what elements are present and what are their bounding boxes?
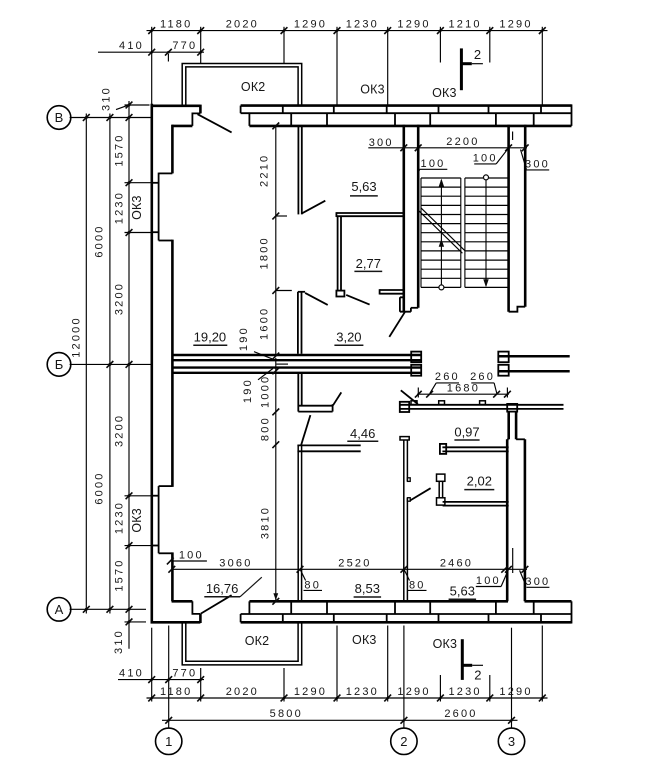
door swing closet 2.77 [346,295,369,305]
bottom extension lines from building down [151,628,153,702]
stair flight edge mid-right [464,178,466,287]
svg-text:8,53: 8,53 [355,581,380,596]
dim column 12000 [85,114,87,614]
stair treads right flight [465,177,509,179]
dim column detail left [128,101,130,649]
axis line В [70,117,151,119]
svg-text:1570: 1570 [113,558,125,591]
svg-text:1180: 1180 [160,686,192,698]
partition corridor 3.20 left [297,292,299,354]
jamb block left end of 0.97/2.02 wall [440,444,446,454]
svg-text:260: 260 [470,371,495,383]
door nub upper partition 8.53/5.63 [407,478,410,482]
svg-text:300: 300 [369,137,394,149]
axis circle В [47,106,71,130]
svg-text:1230: 1230 [346,686,379,698]
partition cap corridor 3.20 [298,291,305,293]
bottom wall jamb verticals [248,601,250,614]
stair up-arrow line left flight [440,180,442,287]
svg-text:1: 1 [165,734,172,749]
svg-text:310: 310 [101,86,113,111]
partition room 8.53 / 5.63 [403,440,405,602]
svg-text:5,63: 5,63 [351,179,376,194]
bottom balcony door jamb step [192,601,200,614]
svg-text:2: 2 [400,734,407,749]
svg-text:ОК3: ОК3 [352,633,377,647]
svg-text:2: 2 [474,668,481,683]
door jamb block corridor bottom wall left end [400,402,409,412]
svg-text:100: 100 [179,550,204,562]
stair arrowhead left flight top [439,179,444,187]
arrowhead at bottom of 3810 column [273,593,278,600]
ticks 12000 column [83,114,90,121]
stair arrowhead right flight bottom [483,279,488,287]
stair flight edge left [420,178,422,287]
wall 800 left segment room 4.46 bottom [297,444,360,446]
svg-text:1290: 1290 [499,686,532,698]
corridor bottom wall lower apartment [400,404,564,406]
closet 2.02 jamb block bottom [437,498,445,505]
axis line Б [70,363,151,365]
left wall niche bottom top-window [159,240,173,242]
stair arrowhead left flight mid [439,239,444,247]
door jamb block corridor lower right [498,365,508,376]
svg-text:2210: 2210 [258,154,270,187]
closet 2.02 left partition [438,481,440,498]
partition room 16.76 / 8.53 [297,445,299,601]
stair treads left flight [421,177,461,179]
left wall top window band bottom edge [152,231,159,233]
svg-text:80: 80 [304,579,321,591]
right wall below stairs narrow part [507,412,510,440]
bottom wall mid sill line [241,613,572,615]
door swing room 19.20 [305,293,328,305]
axis line 1 [168,626,170,729]
top extension lines down from dim rows [151,27,153,105]
extension line window top edge y182.7 [125,182,151,184]
svg-text:В: В [55,110,64,125]
inner dim stub at closet top [276,215,287,217]
door swing room 5.63 [302,201,326,214]
svg-text:770: 770 [172,667,197,679]
left wall niche bottom bottom-window [159,552,173,554]
axis line 2 [403,626,405,729]
axis circle 2 [391,728,417,754]
stair left wall bottom step [411,307,418,309]
hall wall horizontal y408 [298,405,332,407]
stair left wall outer face [402,125,405,312]
closet 2.02 jamb block top [437,474,445,481]
loggia top inner wall [186,67,298,105]
svg-text:310: 310 [113,629,125,654]
stair dim ticks [400,144,407,151]
bottom interior dim line 3060 2520 2460 [171,568,527,570]
stair break line diagonal [418,210,462,253]
right wall below stairs step [516,438,525,440]
svg-text:3,20: 3,20 [336,329,361,344]
partition 8.53/5.63 top cap block [400,437,409,440]
door jamb block corridor upper left end [411,352,421,363]
svg-text:3810: 3810 [260,506,272,539]
extension stub x168.4 below row2 [167,54,169,62]
extension stub right wall bottom [512,548,514,573]
svg-text:16,76: 16,76 [206,581,239,596]
svg-text:ОК3: ОК3 [360,83,385,97]
svg-text:ОК2: ОК2 [241,80,266,94]
dim column 6000 [109,114,111,614]
door jamb block corridor upper right [498,352,508,363]
dim row1 bottom line [147,697,548,699]
right wall step horizontal left [507,438,509,440]
bottom wall band verticals [240,614,242,622]
svg-text:300: 300 [525,158,550,170]
closet 2.02 bottom wall [443,501,509,503]
svg-text:1230: 1230 [113,191,125,224]
top wall band verticals windows and pier caps [240,106,242,114]
top wall outer line left pier [151,105,201,108]
bottom wall outer line left pier [151,621,201,624]
bottom wall right end closure [571,601,573,623]
central wall lower partition 190 left segment [172,366,422,368]
svg-text:800: 800 [260,416,272,441]
corridor wall right segment lower line [498,370,569,373]
svg-text:1680: 1680 [447,382,480,394]
svg-text:А: А [55,602,64,617]
door jamb stub 1 on corridor bottom wall [411,401,417,405]
svg-text:2020: 2020 [226,18,259,30]
left wall bottom window band top edge [152,495,159,497]
left wall inner face upper pier [171,125,174,174]
svg-text:2020: 2020 [226,686,259,698]
top balcony door jamb step [192,113,200,126]
left wall top window band top edge [152,182,159,184]
bottom wall inner face line left part [249,600,508,603]
svg-text:5,63: 5,63 [450,584,475,599]
loggia bottom outer wall [182,623,302,665]
svg-text:100: 100 [476,575,501,587]
svg-text:ОК3: ОК3 [433,637,458,651]
svg-text:6000: 6000 [94,224,106,257]
dim 1680 extension stubs [417,388,419,398]
bottom wall inner face line right part [525,600,572,603]
svg-text:3: 3 [508,734,515,749]
door swing bottom balcony door [201,595,232,613]
svg-text:1290: 1290 [294,686,327,698]
stair flight edge mid-left [460,178,462,287]
svg-text:1600: 1600 [259,307,271,340]
closet 2.77 top wall [336,212,404,214]
partition room 19.20 / 5.63 [297,126,299,214]
dim row2 top line 410 770 [98,51,204,53]
dim row1 top line [147,30,548,32]
top wall inner face left piece [172,125,193,128]
section mark 2 bottom heavy line [461,639,464,680]
svg-text:6000: 6000 [94,471,106,504]
svg-text:1230: 1230 [113,501,125,534]
svg-text:2460: 2460 [440,558,473,570]
svg-text:410: 410 [119,667,144,679]
svg-text:1570: 1570 [113,133,125,166]
ticks 6000 column [107,114,114,121]
wall between 0.97 and 2.02 [442,446,508,448]
svg-text:2600: 2600 [444,708,477,720]
inner dim stub at corridor top [276,290,292,292]
loggia top outer wall [182,64,302,105]
hall wall end cap [332,404,334,411]
svg-text:ОК3: ОК3 [432,86,457,100]
extension line window bottom edge y232.5 [125,232,151,234]
svg-text:300: 300 [525,576,550,588]
ticks detail column [126,102,133,109]
stair right wall inner face [507,125,510,312]
axis circle А [47,598,71,622]
left wall bottom window band bottom edge [152,545,159,547]
left wall window niche top [159,172,173,174]
stair dim line 2200 [368,147,527,149]
svg-text:2,02: 2,02 [467,473,492,488]
top wall jamb verticals [248,113,250,126]
tambour wall piece above entrance [380,289,404,291]
svg-text:80: 80 [409,579,426,591]
svg-text:410: 410 [119,40,144,52]
svg-text:770: 770 [172,40,197,52]
top wall outer line band region [241,104,572,107]
stub crossing central wall gap [276,363,288,365]
svg-text:100: 100 [421,158,446,170]
svg-text:1230: 1230 [448,686,481,698]
top balcony door jamb outer [199,105,202,114]
svg-text:2: 2 [474,47,481,62]
stair down-arrow line right flight [485,177,487,286]
svg-text:1290: 1290 [499,18,532,30]
svg-text:ОК2: ОК2 [245,634,270,648]
right wall below stairs wide part [506,439,509,601]
bottom wall outer line band region [241,621,572,624]
bottom wall inner face left piece [172,600,193,603]
central wall upper partition 190 left segment [172,354,422,356]
left wall niche edge line bottom window [158,486,160,553]
svg-text:2,77: 2,77 [356,256,381,271]
axis circle Б [47,353,71,377]
door swing room 16.76 [301,415,310,445]
svg-text:Б: Б [55,357,64,372]
svg-text:5800: 5800 [270,708,303,720]
entrance door swing left apartment [389,312,405,337]
svg-text:ОК3: ОК3 [130,508,144,533]
svg-text:12000: 12000 [71,316,83,358]
dim row 410 770 bottom line [118,679,204,681]
svg-text:4,46: 4,46 [350,426,375,441]
svg-text:3060: 3060 [219,558,252,570]
svg-text:1180: 1180 [160,18,192,30]
svg-text:ОК3: ОК3 [130,195,144,220]
extension line lower window top y495.8 [125,495,151,497]
closet 2.77 left partition [337,216,339,290]
left wall inner face middle [171,240,174,487]
section mark 2 top arm [461,62,471,65]
svg-text:3200: 3200 [113,282,125,315]
extension line y621.9 left [125,621,147,623]
door jamb block corridor lower left end [411,365,421,376]
door swing corridor bottom wall [401,390,418,404]
extension line lower window bottom y545.6 [125,545,151,547]
door swing closet 2.02 [410,488,430,500]
bottom balcony door jamb outer [199,614,202,623]
closet 2.77 door foot block [336,291,344,297]
left wall niche top bottom-window [159,485,173,487]
axis circle 3 [498,728,524,754]
svg-text:2200: 2200 [446,136,479,148]
dim row 5800 2600 line [162,719,518,721]
svg-text:1290: 1290 [397,686,430,698]
corridor wall right segment upper line [498,355,569,358]
top wall right end closure [571,104,573,126]
axis circle 1 [156,728,182,754]
stair dim extension stubs [417,129,419,153]
svg-text:1290: 1290 [294,18,327,30]
dim line 1680 [417,393,509,395]
axis line А [70,608,146,610]
stair arrow start circle left flight [439,285,444,290]
dim row1 top ticks [148,27,155,34]
svg-text:1210: 1210 [448,18,481,30]
svg-text:2520: 2520 [338,558,371,570]
inner dim column upper x281 [275,126,277,356]
stair right wall bottom step [509,307,526,312]
svg-text:0,97: 0,97 [454,425,479,440]
door jamb stub 3 on corridor bottom wall [480,401,486,405]
svg-text:1290: 1290 [397,18,430,30]
door jamb stub 2 on corridor bottom wall [439,401,445,405]
stair left wall inner face [417,125,420,308]
axis line 3 [511,628,513,728]
svg-text:3200: 3200 [113,414,125,447]
left wall niche edge line top window [158,173,160,241]
door nub lower partition 8.53/5.63 [407,498,410,502]
extension line y105 left [125,104,150,106]
stair arrow start circle right flight [484,175,489,180]
inner dim column lower x275 [275,358,277,601]
top wall inner face line [249,125,571,128]
svg-text:19,20: 19,20 [194,329,227,344]
section mark 2 bottom arm [462,664,472,667]
door swing top balcony door [198,114,232,132]
svg-text:1000: 1000 [260,375,272,408]
svg-text:1800: 1800 [258,236,270,269]
right wall block at corridor junction [507,404,517,412]
svg-text:1230: 1230 [346,18,379,30]
left wall inner face lower pier [171,552,174,601]
top wall mid sill line [241,112,572,114]
section mark 2 top heavy line [460,48,463,90]
loggia bottom inner wall [186,623,298,661]
partition below central wall x300 [297,374,299,412]
svg-text:190: 190 [242,378,254,403]
svg-text:260: 260 [435,371,460,383]
door swing hall upper [333,392,341,405]
svg-text:190: 190 [238,326,250,351]
svg-text:100: 100 [473,152,498,164]
tick at central wall on upper column [272,353,279,360]
stair left wall foot jut [400,297,411,311]
left exterior wall outer face [151,104,154,624]
stair right wall outer face [524,125,527,307]
